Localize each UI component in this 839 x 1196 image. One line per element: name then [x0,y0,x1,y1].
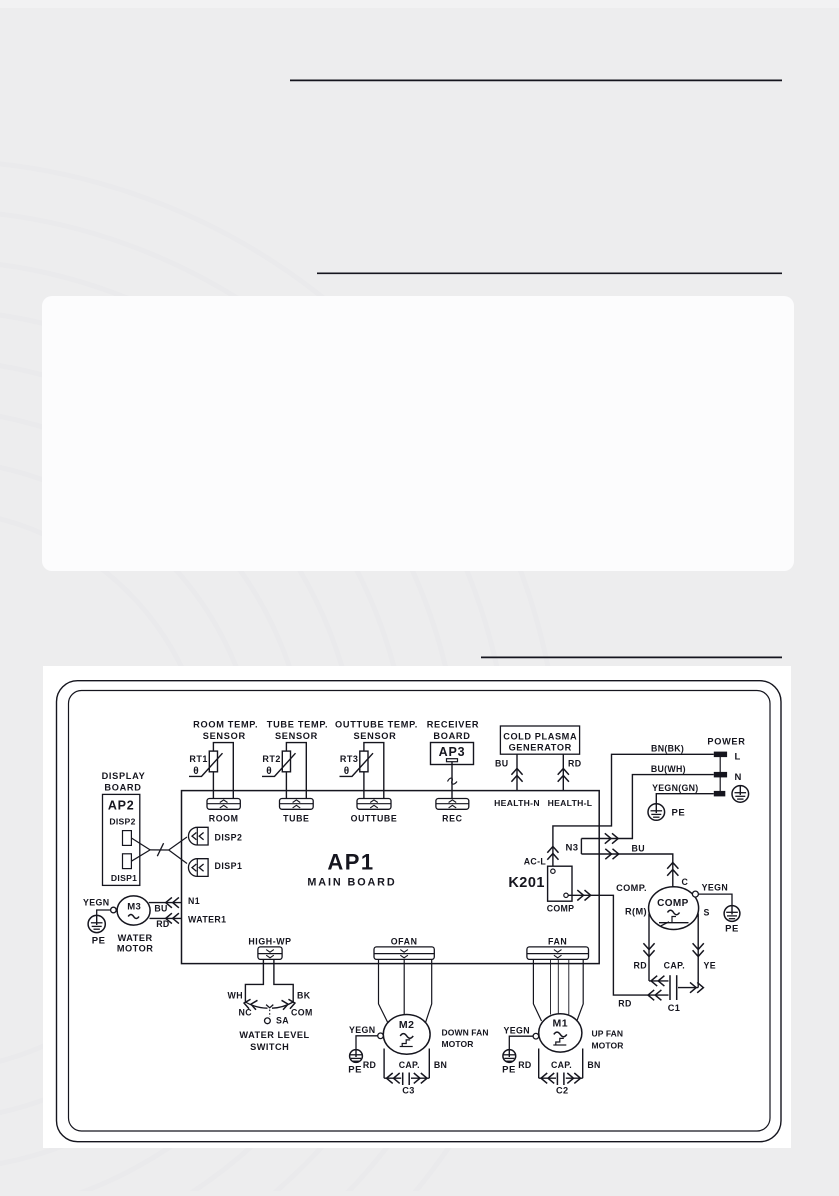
svg-text:AP2: AP2 [108,799,135,813]
main board AP1 label [307,850,396,889]
svg-text:C3: C3 [402,1086,415,1096]
section rule top [290,79,782,81]
main board AP1 outline [182,791,600,964]
harness AP2 to main board [131,837,187,864]
svg-text:RT3: RT3 [340,754,359,764]
wire M3 BU to N1 [149,896,200,913]
svg-text:WATER: WATER [118,933,153,943]
compressor labels [616,877,710,918]
M1 YEGN terminal to earth [503,1025,538,1049]
M1 wires to capacitor C2 [518,1049,600,1084]
receiver board AP3 [431,743,474,765]
sensor title OUTTUBE TEMP. SENSOR [335,720,418,741]
svg-text:RD: RD [363,1060,376,1070]
svg-text:N1: N1 [188,896,200,906]
svg-text:M2: M2 [399,1019,415,1031]
svg-text:YEGN: YEGN [83,898,110,908]
svg-text:MOTOR: MOTOR [592,1040,624,1050]
diagram inner border frame [69,691,771,1132]
water level switch labels [228,991,313,1018]
svg-text:DOWN FAN: DOWN FAN [442,1027,489,1037]
earth PE (power side) [648,804,685,821]
svg-text:AC-L: AC-L [524,856,547,866]
svg-text:SENSOR: SENSOR [275,731,318,741]
svg-text:AP1: AP1 [327,850,374,875]
svg-text:RD: RD [568,759,582,769]
connector pair on AC-L riser [547,847,558,860]
connector ROOM [207,799,240,824]
connector OUTTUBE [351,799,398,824]
svg-text:OUTTUBE TEMP.: OUTTUBE TEMP. [335,720,418,730]
svg-text:PE: PE [725,924,739,935]
svg-text:S: S [704,908,710,918]
water level switch title [239,1030,309,1052]
svg-text:COMP.: COMP. [616,883,647,893]
svg-text:L: L [735,752,741,763]
down fan motor label [442,1027,489,1049]
svg-text:N3: N3 [566,843,579,854]
connector HIGH-WP [248,936,291,959]
svg-text:SENSOR: SENSOR [353,731,396,741]
svg-text:PE: PE [92,936,106,947]
svg-text:BU: BU [495,759,509,769]
water motor M3 [117,896,150,925]
down fan motor M2 [383,1015,430,1055]
svg-text:DISP2: DISP2 [215,832,243,842]
wire compressor R to C1 (RD) [633,914,668,987]
svg-text:YEGN: YEGN [349,1025,376,1035]
svg-text:MOTOR: MOTOR [117,944,154,954]
M2 YEGN terminal to earth [349,1025,383,1050]
AP2 pin DISP2 [123,831,132,846]
terminal strip line [719,757,721,791]
terminal PE with earth [714,786,749,803]
display board title [102,771,146,792]
earth PE (water motor) [88,915,106,946]
receiver board title [427,720,480,741]
connector OFAN [374,936,434,959]
connector pair on BU(WH)/N3 wire [605,833,618,843]
capacitor C1 [664,960,685,1013]
svg-text:BN(BK): BN(BK) [651,744,684,754]
svg-text:BU(WH): BU(WH) [651,764,686,774]
svg-text:BOARD: BOARD [433,731,470,741]
svg-text:YEGN(GN): YEGN(GN) [652,783,698,793]
wires HIGH-WP to water level switch [245,959,293,1002]
svg-text:BN: BN [587,1060,600,1070]
up fan motor M1 [539,1014,582,1052]
svg-text:RD: RD [518,1060,531,1070]
M2 wires to capacitor C3 [363,1049,447,1084]
svg-text:BK: BK [297,991,311,1001]
earth PE (M2) [348,1050,362,1076]
thermistor RT3 [340,743,384,799]
wire HEALTH-N (BU) [495,754,523,790]
svg-text:RT1: RT1 [189,754,208,764]
svg-text:TUBE TEMP.: TUBE TEMP. [267,720,328,730]
svg-text:RT2: RT2 [262,754,281,764]
relay K201 [508,866,574,913]
connector DISP2 on main board [188,827,242,845]
display board AP2 box [103,794,140,885]
svg-text:ROOM TEMP.: ROOM TEMP. [193,720,258,730]
label AC-L [524,856,547,866]
svg-text:CAP.: CAP. [399,1060,420,1070]
AP2 pin DISP1 [123,854,132,869]
net label HEALTH-L [548,798,593,808]
svg-text:C: C [682,877,689,887]
svg-text:M1: M1 [553,1018,569,1030]
capacitor C3 [402,1073,415,1096]
M3 YEGN terminal to earth [83,898,116,916]
svg-text:COM: COM [291,1008,313,1018]
compressor S terminal to earth (YEGN) [692,883,732,907]
connector DISP1 on main board [188,859,242,877]
section rule middle [317,272,782,274]
svg-text:HEALTH-N: HEALTH-N [494,798,540,808]
POWER terminal label [707,737,745,747]
svg-text:N: N [735,772,742,783]
svg-text:GENERATOR: GENERATOR [509,743,572,753]
svg-text:PE: PE [672,808,686,819]
svg-text:COLD PLASMA: COLD PLASMA [503,731,577,741]
svg-text:WH: WH [228,991,243,1001]
svg-text:BU: BU [632,843,646,853]
connector TUBE [280,799,314,824]
wire BN(BK): POWER L to AC-L riser [553,744,714,869]
wire YEGN(GN): PE to earth [652,783,714,804]
svg-text:NC: NC [238,1008,252,1018]
svg-text:MAIN BOARD: MAIN BOARD [307,877,396,889]
connector REC [436,799,469,824]
svg-text:FAN: FAN [548,936,567,946]
capacitor C2 [556,1073,569,1096]
svg-text:PE: PE [502,1065,516,1076]
terminal N [714,772,742,783]
svg-text:RD: RD [156,919,169,929]
wire N3 to compressor C (BU) [581,843,678,887]
sensor title TUBE TEMP. SENSOR [267,720,328,741]
thermistor RT2 [262,743,306,799]
wire BU(WH): POWER N to N3 connector [581,764,713,839]
wire HEALTH-L (RD) [558,754,582,790]
diagram white backdrop [43,666,791,1148]
svg-text:POWER: POWER [707,737,745,747]
wire compressor S to C1 (YE) [678,914,716,993]
earth PE (compressor) [724,906,740,935]
up fan motor label [592,1029,624,1051]
svg-text:DISP1: DISP1 [215,861,243,871]
svg-text:RECEIVER: RECEIVER [427,720,480,730]
svg-text:RD: RD [618,999,632,1009]
svg-text:UP FAN: UP FAN [592,1029,624,1039]
svg-text:TUBE: TUBE [283,814,309,824]
wire K201 COMP to capacitor C1 (RD) [568,890,668,1008]
svg-text:YE: YE [704,960,717,970]
svg-text:BOARD: BOARD [104,782,141,792]
svg-text:YEGN: YEGN [702,883,729,893]
svg-text:M3: M3 [127,902,141,913]
svg-text:WATER1: WATER1 [188,914,226,924]
svg-text:SENSOR: SENSOR [203,731,246,741]
water motor label [117,933,154,954]
compressor COMP motor [649,887,699,930]
wire M3 RD to WATER1 [150,913,227,929]
diagram outer border frame [57,681,782,1142]
blank content card [42,296,794,571]
svg-text:OFAN: OFAN [391,936,418,946]
svg-text:CAP.: CAP. [664,960,685,970]
cold plasma generator box [500,726,579,754]
svg-text:PE: PE [348,1065,362,1076]
svg-text:BN: BN [434,1060,447,1070]
svg-text:K201: K201 [508,875,545,891]
wire AP3 to REC with twist [448,762,458,799]
section rule above diagram [481,656,782,658]
svg-text:C2: C2 [556,1086,569,1096]
svg-text:R(M): R(M) [625,907,647,917]
svg-text:YEGN: YEGN [503,1025,530,1035]
svg-text:DISP1: DISP1 [111,873,137,883]
net label HEALTH-N [494,798,540,808]
svg-text:WATER LEVEL: WATER LEVEL [239,1030,309,1040]
wires FAN to M1 [533,959,583,1021]
svg-text:AP3: AP3 [439,745,466,759]
connector FAN [527,936,589,959]
sensor title ROOM TEMP. SENSOR [193,720,258,741]
svg-text:REC: REC [442,814,462,824]
earth PE (M1) [502,1050,516,1076]
node N3 pin bracket [566,839,582,855]
svg-text:θ: θ [266,766,271,777]
svg-text:C1: C1 [668,1003,681,1013]
svg-text:θ: θ [344,766,349,777]
svg-text:SWITCH: SWITCH [250,1042,289,1052]
svg-text:RD: RD [633,960,647,970]
water level switch SA [243,998,295,1025]
svg-text:HEALTH-L: HEALTH-L [548,798,593,808]
svg-text:MOTOR: MOTOR [442,1039,474,1049]
svg-text:COMP: COMP [547,904,575,914]
terminal L [714,752,741,763]
svg-text:CAP.: CAP. [551,1060,572,1070]
thermistor RT1 [189,743,233,799]
svg-text:OUTTUBE: OUTTUBE [351,814,398,824]
svg-text:θ: θ [193,766,198,777]
wires OFAN to M2 [379,959,432,1022]
svg-text:DISPLAY: DISPLAY [102,771,146,781]
svg-text:COMP: COMP [657,898,689,909]
svg-text:SA: SA [276,1016,289,1026]
svg-text:HIGH-WP: HIGH-WP [248,936,291,946]
svg-text:DISP2: DISP2 [109,816,135,826]
svg-text:BU: BU [154,904,167,914]
svg-text:ROOM: ROOM [209,814,239,824]
